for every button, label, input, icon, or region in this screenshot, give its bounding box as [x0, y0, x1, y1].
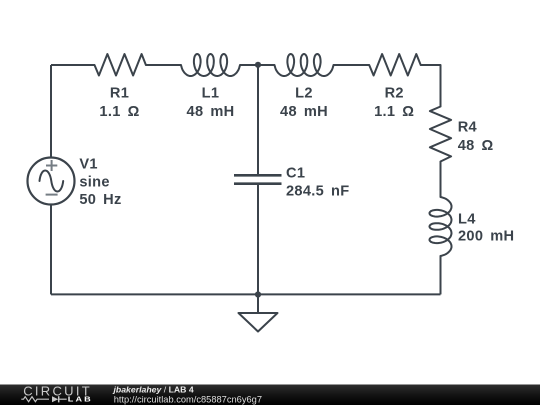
- inductor L4: [430, 197, 452, 256]
- V1 minus polarity mark: [46, 194, 58, 196]
- resistor R4: [430, 107, 451, 162]
- footer bar: [0, 385, 540, 405]
- ground stem wire: [257, 294, 259, 313]
- svg-text:R1: R1: [110, 85, 129, 101]
- inductor L1: [181, 54, 240, 76]
- svg-text:L1: L1: [202, 85, 220, 101]
- wire L4-bottom segment: [440, 256, 442, 294]
- svg-text:48 mH: 48 mH: [280, 104, 328, 120]
- wire L2-R2 segment: [334, 64, 370, 66]
- wire left rail upper: [50, 65, 52, 158]
- svg-text:http://circuitlab.com/c85887cn: http://circuitlab.com/c85887cn6y6g7: [114, 394, 262, 404]
- wire R1-L1 segment: [146, 64, 181, 66]
- wire R2-top-right corner segment: [421, 65, 441, 107]
- V1 sine wave mark: [40, 171, 64, 192]
- V1 plus polarity mark: [46, 160, 57, 171]
- inductor L2: [275, 54, 334, 76]
- svg-text:jbakerlahey / LAB 4: jbakerlahey / LAB 4: [113, 384, 194, 394]
- svg-text:L4: L4: [458, 211, 476, 227]
- wire top-left segment: [51, 64, 95, 66]
- svg-text:48 mH: 48 mH: [187, 104, 235, 120]
- node B junction bottom: [255, 291, 261, 297]
- svg-text:48 Ω: 48 Ω: [458, 138, 494, 154]
- svg-text:1.1 Ω: 1.1 Ω: [99, 104, 139, 120]
- logo resistor zigzag: [21, 397, 49, 402]
- capacitor C1 bottom plate: [234, 182, 282, 185]
- svg-text:R2: R2: [385, 85, 404, 101]
- svg-text:LAB: LAB: [68, 396, 93, 404]
- ground triangle symbol: [239, 313, 278, 332]
- svg-text:sine: sine: [79, 174, 109, 190]
- svg-text:L2: L2: [295, 85, 313, 101]
- svg-text:C1: C1: [286, 166, 305, 182]
- svg-text:284.5 nF: 284.5 nF: [286, 184, 349, 200]
- wire left rail lower: [50, 205, 52, 295]
- wire C1 upper branch: [257, 65, 259, 174]
- svg-text:50 Hz: 50 Hz: [79, 192, 121, 208]
- svg-text:200 mH: 200 mH: [458, 229, 514, 245]
- wire C1 lower branch: [257, 185, 259, 295]
- resistor R2: [369, 54, 421, 76]
- svg-text:V1: V1: [79, 156, 97, 172]
- wire L1-node segment: [240, 64, 258, 66]
- voltage source V1 body circle: [28, 158, 75, 205]
- node A junction top: [255, 62, 261, 68]
- resistor R1: [95, 54, 146, 76]
- wire bottom rail: [51, 293, 441, 295]
- wire R4-L4 segment: [440, 162, 442, 198]
- logo diode symbol: [52, 396, 58, 402]
- svg-text:R4: R4: [458, 119, 478, 135]
- svg-text:1.1 Ω: 1.1 Ω: [374, 104, 414, 120]
- capacitor C1 top plate: [234, 174, 282, 177]
- wire node-L2 segment: [258, 64, 275, 66]
